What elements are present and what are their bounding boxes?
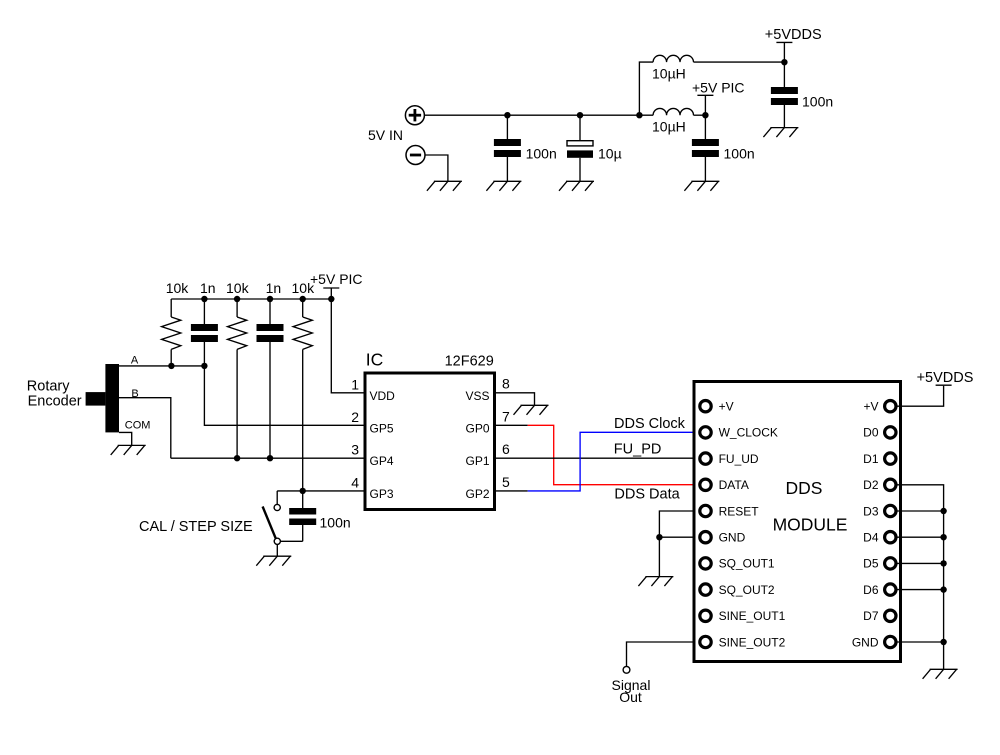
svg-text:SINE_OUT1: SINE_OUT1 (719, 609, 786, 623)
svg-text:D5: D5 (863, 557, 879, 571)
svg-text:D1: D1 (863, 452, 879, 466)
ground (486, 181, 521, 191)
label Signal Out (612, 677, 651, 705)
svg-text:10µH: 10µH (652, 119, 686, 135)
capacitor 10µ electrolytic (567, 115, 593, 181)
svg-text:3: 3 (351, 442, 359, 458)
inductor 10µH bottom (653, 108, 693, 115)
wire node to top inductor (639, 62, 653, 115)
svg-text:2: 2 (351, 409, 359, 425)
switch CAL blade (263, 507, 276, 539)
svg-text:D7: D7 (863, 609, 879, 623)
wire DDS Data red (528, 425, 693, 484)
svg-text:W_CLOCK: W_CLOCK (719, 426, 778, 440)
DDS pin SINE_OUT2 (700, 635, 786, 649)
svg-text:10k: 10k (166, 280, 190, 296)
resistor 10k CAL (293, 299, 312, 491)
svg-text:100n: 100n (320, 515, 351, 531)
capacitor 100n GP3 (289, 491, 316, 541)
svg-text:100n: 100n (724, 146, 755, 162)
svg-text:12F629: 12F629 (445, 353, 494, 369)
junction node (168, 363, 174, 369)
svg-text:IC: IC (366, 349, 384, 369)
junction node (504, 112, 510, 118)
svg-text:GP2: GP2 (465, 487, 489, 501)
DDS pin D6 right (863, 583, 896, 597)
svg-text:D0: D0 (863, 426, 879, 440)
DDS pin DATA (700, 478, 749, 492)
svg-text:DATA: DATA (719, 478, 749, 492)
DDS pin +V (700, 400, 734, 414)
svg-text:10µH: 10µH (652, 65, 686, 81)
svg-text:Rotary: Rotary (27, 379, 70, 395)
wire SINE_OUT2 out (627, 642, 693, 666)
svg-text:GND: GND (852, 635, 879, 649)
wire GP0 stub (495, 424, 528, 426)
junction node (267, 455, 273, 461)
svg-text:+5V PIC: +5V PIC (310, 271, 363, 287)
svg-text:+V: +V (863, 400, 878, 414)
svg-text:CAL / STEP SIZE: CAL / STEP SIZE (139, 519, 253, 535)
junction node (702, 112, 708, 118)
capacitor 100n VDDS (771, 62, 798, 127)
junction node (267, 296, 273, 302)
svg-text:SINE_OUT2: SINE_OUT2 (719, 635, 786, 649)
DDS pin +V right (863, 400, 896, 414)
junction node (636, 112, 642, 118)
svg-text:1n: 1n (266, 280, 282, 296)
ground (111, 445, 146, 455)
svg-text:100n: 100n (802, 94, 833, 110)
svg-text:+V: +V (719, 400, 734, 414)
wire encoder A (119, 365, 204, 367)
svg-text:GP3: GP3 (370, 487, 394, 501)
ground (427, 181, 462, 191)
svg-text:D2: D2 (863, 478, 879, 492)
svg-text:5: 5 (502, 474, 510, 490)
svg-text:DDS Data: DDS Data (614, 486, 680, 502)
junction node (940, 508, 946, 514)
capacitor 1n B (257, 299, 284, 458)
wire inductor to +5VDDS node (694, 61, 785, 63)
wire switch to ground (276, 544, 278, 556)
svg-text:MODULE: MODULE (773, 515, 848, 535)
resistor 10k A (162, 299, 181, 366)
wire 5V rail (425, 114, 654, 116)
wire GP3 net (277, 490, 365, 492)
capacitor 1n A (191, 299, 218, 366)
svg-text:10k: 10k (226, 280, 250, 296)
wire +V to +5VDDS (896, 386, 944, 406)
wire inductor to +5V PIC node (694, 114, 706, 116)
battery positive terminal (405, 106, 424, 125)
junction node (781, 59, 787, 65)
label Rotary Encoder (27, 379, 82, 410)
DDS module body (694, 382, 901, 662)
svg-text:GP4: GP4 (370, 454, 394, 468)
wire encoder COM (119, 432, 132, 445)
svg-text:GP5: GP5 (370, 421, 394, 435)
svg-text:GP0: GP0 (465, 421, 489, 435)
svg-text:A: A (131, 355, 139, 367)
DDS pin RESET (700, 504, 759, 518)
ground (684, 181, 719, 191)
svg-text:GP1: GP1 (465, 454, 489, 468)
svg-text:D6: D6 (863, 583, 879, 597)
junction node (234, 296, 240, 302)
DDS pin SINE_OUT1 (700, 609, 786, 623)
power rail +5V PIC (323, 288, 339, 299)
svg-text:COM: COM (125, 420, 151, 432)
wire D3 stub (896, 510, 944, 512)
DDS pin GND right (852, 635, 896, 649)
wire GP5 net (204, 366, 365, 425)
svg-text:SQ_OUT2: SQ_OUT2 (719, 583, 775, 597)
switch CAL bottom terminal (274, 538, 280, 544)
resistor 10k B (228, 299, 247, 458)
junction node (656, 534, 662, 540)
DDS pin D5 right (863, 557, 896, 571)
svg-text:Encoder: Encoder (28, 394, 82, 410)
svg-text:8: 8 (502, 376, 510, 392)
DDS pin D2 right (863, 478, 896, 492)
junction node (940, 639, 946, 645)
wire D2 bus (896, 485, 944, 670)
ground (638, 577, 673, 587)
svg-text:+5VDDS: +5VDDS (765, 27, 822, 43)
ground (256, 556, 291, 566)
svg-text:GND: GND (719, 531, 746, 545)
svg-text:DDS: DDS (786, 478, 823, 498)
wire switch to cap (280, 540, 302, 542)
ground (514, 405, 549, 415)
svg-text:+5VDDS: +5VDDS (917, 370, 974, 386)
wire GP2 stub (495, 490, 528, 492)
junction node (328, 296, 334, 302)
svg-text:4: 4 (351, 474, 359, 490)
junction node (940, 534, 946, 540)
junction node (201, 296, 207, 302)
terminal Signal Out (623, 666, 630, 673)
wire GP4 net (171, 457, 365, 459)
svg-text:1: 1 (351, 377, 359, 393)
svg-text:Out: Out (619, 689, 642, 705)
junction node (234, 455, 240, 461)
junction node (577, 112, 583, 118)
power rail +5VDDS (776, 42, 792, 62)
svg-text:VSS: VSS (465, 389, 489, 403)
DDS pin SQ_OUT2 (700, 583, 775, 597)
svg-text:D3: D3 (863, 504, 879, 518)
svg-text:VDD: VDD (370, 389, 396, 403)
wire pull-up rail (171, 298, 331, 300)
svg-text:10µ: 10µ (598, 146, 622, 162)
power rail +5VDDS (936, 384, 952, 386)
svg-text:+5V PIC: +5V PIC (692, 80, 745, 96)
DDS pin D1 right (863, 452, 896, 466)
DDS pin W_CLOCK (700, 426, 778, 440)
DDS pin D0 right (863, 426, 896, 440)
junction node (300, 296, 306, 302)
DDS pin SQ_OUT1 (700, 557, 775, 571)
battery negative terminal (406, 146, 425, 165)
svg-text:100n: 100n (526, 146, 557, 162)
wire negative to ground (425, 155, 448, 181)
svg-text:6: 6 (502, 441, 510, 457)
ground (763, 128, 798, 138)
DDS pin D4 right (863, 531, 896, 545)
junction node (940, 586, 946, 592)
wire encoder B (119, 398, 171, 459)
wire DDS Clock blue (528, 432, 693, 491)
svg-text:5V IN: 5V IN (368, 127, 403, 143)
junction node (300, 488, 306, 494)
IC 12F629 body (365, 373, 495, 510)
rotary encoder body (86, 364, 119, 432)
wire D5 stub (896, 562, 944, 564)
svg-text:FU_PD: FU_PD (614, 442, 662, 458)
svg-text:RESET: RESET (719, 504, 760, 518)
DDS pin D7 right (863, 609, 896, 623)
wire +5V PIC to VDD pin 1 (331, 299, 365, 393)
svg-text:1n: 1n (200, 280, 216, 296)
capacitor 100n PIC (692, 115, 719, 181)
svg-text:D4: D4 (863, 531, 879, 545)
ground (559, 181, 594, 191)
switch CAL top terminal (274, 491, 280, 511)
wire RESET net (659, 511, 692, 577)
svg-text:DDS Clock: DDS Clock (614, 416, 686, 432)
capacitor 100n input (494, 115, 521, 181)
wire GP1 to FU_UD (495, 457, 693, 459)
wire D6 stub (896, 589, 944, 591)
inductor 10µH top (653, 55, 693, 62)
ground (923, 669, 958, 679)
DDS pin FU_UD (700, 452, 759, 466)
DDS pin D3 right (863, 504, 896, 518)
svg-text:SQ_OUT1: SQ_OUT1 (719, 557, 775, 571)
svg-text:7: 7 (502, 408, 510, 424)
DDS pin GND (700, 531, 746, 545)
svg-text:FU_UD: FU_UD (719, 452, 759, 466)
power rail +5V PIC (697, 95, 713, 115)
wire GND right stub (896, 641, 944, 643)
wire D4 stub (896, 536, 944, 538)
wire GND left stub (659, 536, 692, 538)
junction node (201, 363, 207, 369)
junction node (940, 560, 946, 566)
wire VSS to ground (495, 393, 535, 406)
